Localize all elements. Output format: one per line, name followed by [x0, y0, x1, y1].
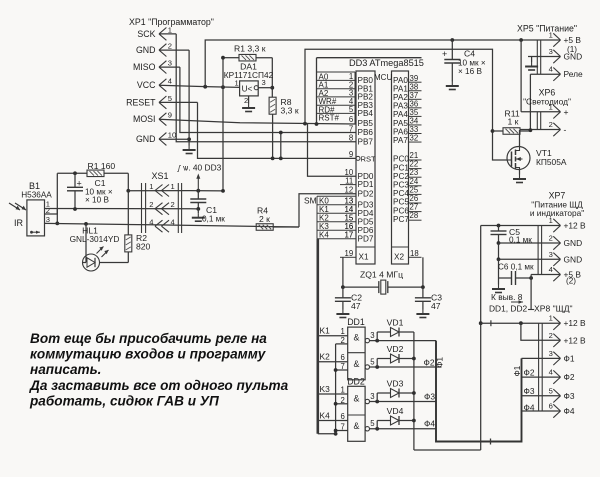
wire up to diode	[376, 421, 378, 429]
wire MOSI to DD3 pin6	[159, 119, 356, 124]
svg-text:1: 1	[149, 182, 153, 191]
wire XP5 pin3 GND	[528, 56, 561, 58]
junction output / diode branch	[375, 400, 379, 404]
pin 19 stub	[340, 256, 356, 258]
key box K0-K4	[317, 196, 356, 239]
wire diode bus to +12 rail	[414, 449, 481, 451]
wire K2 to gate input	[318, 361, 348, 363]
wire diode anode	[377, 392, 390, 394]
svg-text:2: 2	[168, 42, 172, 51]
svg-text:0,1 мк: 0,1 мк	[509, 235, 532, 244]
svg-text:1: 1	[168, 25, 172, 34]
diode VD2	[391, 354, 400, 363]
junction tie line	[334, 368, 338, 372]
wire diode cathode to bus	[399, 358, 414, 360]
junction GND rows	[497, 257, 501, 261]
svg-text:PD1: PD1	[358, 180, 374, 189]
diode VD3	[391, 389, 400, 398]
svg-text:работать, сидюк ГАВ и УП: работать, сидюк ГАВ и УП	[29, 394, 220, 409]
svg-text:5: 5	[168, 94, 172, 103]
wire to C2	[342, 287, 344, 298]
wire XP5 pin4 Реле	[530, 73, 560, 75]
svg-text:VCC: VCC	[137, 80, 156, 90]
connector XS1 pin 2	[155, 203, 169, 215]
junction diode bus	[412, 419, 416, 423]
svg-text:4: 4	[149, 218, 153, 227]
junction MOSI / gate drive	[303, 122, 307, 126]
wire XP8 pin1	[481, 322, 561, 324]
wire diode cathode bus	[413, 332, 415, 450]
svg-text:+12 В: +12 В	[564, 318, 587, 328]
svg-text:1: 1	[549, 31, 553, 40]
svg-text:2: 2	[549, 120, 553, 129]
svg-text:Ф2: Ф2	[424, 357, 435, 367]
svg-text:MOSI: MOSI	[133, 114, 155, 124]
wire B1 pin1 row to XS1 pin2	[45, 208, 191, 210]
svg-text:PD2: PD2	[358, 189, 374, 198]
tick on thick wire	[490, 439, 492, 445]
wire diode cathode to bus	[399, 331, 414, 333]
connector XP7 pin 3	[553, 253, 560, 266]
wire C1 0.1 top lead	[197, 191, 199, 199]
junction output / diode branch	[375, 365, 379, 369]
junction +12 rail / XP8 pin1	[479, 321, 483, 325]
junction DA1 pin3 / R8	[270, 86, 274, 90]
svg-text:SM: SM	[304, 196, 317, 206]
svg-text:+12 В: +12 В	[564, 221, 587, 231]
svg-text:(2): (2)	[566, 277, 576, 286]
connector XP5 bar	[540, 40, 542, 74]
svg-text:&: &	[353, 359, 359, 369]
wire DA1 pin2 to ground	[248, 96, 250, 104]
connector XP5 bar	[536, 40, 538, 74]
wire X1 to crystal	[342, 257, 344, 287]
wire XP7 pin1 +12V	[481, 225, 561, 227]
svg-text:X2: X2	[394, 253, 404, 262]
svg-text:XS1: XS1	[151, 171, 168, 181]
svg-text:1: 1	[549, 314, 553, 323]
MCU DD3 ATmega8515 outline	[317, 58, 422, 124]
svg-text:K4: K4	[319, 231, 329, 240]
junction gate wire / R11	[491, 129, 495, 133]
wire XP8 pin6 Ф4	[522, 410, 561, 412]
connector XP6 pin 1	[553, 105, 560, 118]
svg-text:4: 4	[549, 65, 553, 74]
wire rail to R1-160	[57, 172, 87, 174]
junction rail / pin3 row	[55, 222, 59, 226]
wire C4 top	[451, 40, 453, 60]
svg-text:2: 2	[549, 331, 553, 340]
svg-text:VD2: VD2	[387, 344, 404, 354]
junction C1 / gnd row	[196, 207, 200, 211]
wire gate output row 4	[370, 428, 437, 430]
svg-text:Ф4: Ф4	[524, 403, 535, 413]
junction tie line	[334, 402, 338, 406]
connector XP8 pin 2	[553, 334, 560, 347]
wire R1 to DA1 pin3 and R8	[271, 58, 273, 97]
junction output / diode branch	[375, 339, 379, 343]
junction rail / C1	[73, 171, 77, 175]
svg-text:XP5 "Питание": XP5 "Питание"	[517, 24, 577, 34]
svg-text:VD1: VD1	[387, 318, 404, 328]
connector XS1 left bar	[141, 183, 143, 233]
ground C2	[336, 310, 349, 318]
svg-text:6: 6	[341, 353, 345, 362]
wire crystal left	[343, 286, 379, 288]
svg-text:3: 3	[168, 59, 172, 68]
junction C6 / +5(2)	[529, 276, 533, 280]
wire R4 right	[273, 226, 299, 228]
svg-text:X1: X1	[359, 253, 369, 262]
junction output / diode branch	[375, 427, 379, 431]
junction +5V / R1	[221, 56, 225, 60]
wire K bus bundle down	[316, 239, 319, 434]
connector XP1 pin 10 GND	[159, 133, 166, 146]
connector XP7 pin 2	[553, 236, 560, 249]
svg-text:4: 4	[549, 368, 553, 377]
svg-text:5: 5	[349, 105, 354, 114]
connector XP1 pin 1 SCK	[159, 28, 166, 41]
svg-text:GND: GND	[136, 134, 156, 144]
svg-text:DD1: DD1	[347, 317, 365, 327]
divider X1	[356, 246, 375, 248]
junction diode bus	[412, 391, 416, 395]
wire +5V vertical to XS1 pin1	[222, 58, 224, 191]
connector XP7 bar	[541, 226, 543, 275]
svg-text:3: 3	[549, 349, 553, 358]
MCU DD3 right column	[392, 71, 409, 264]
wire XS1 pin1 row to +5V vertical	[190, 190, 223, 192]
wire R1 right	[256, 57, 272, 59]
pin 18 stub	[409, 256, 422, 258]
svg-text:С6 0,1 мк: С6 0,1 мк	[498, 262, 534, 271]
connector XS1 pin 1	[155, 185, 169, 197]
junction diode bus	[412, 357, 416, 361]
svg-text:К выв. 8: К выв. 8	[491, 292, 523, 302]
resistor R11	[503, 128, 520, 135]
wire R1-160 right	[104, 172, 128, 174]
svg-text:18: 18	[410, 249, 419, 258]
wire Реле down to VT1 drain	[529, 74, 531, 130]
wire SCK from XP1 pin1	[159, 33, 176, 35]
svg-text:коммутацию входов и программу: коммутацию входов и программу	[30, 347, 267, 362]
svg-text:PD7: PD7	[358, 234, 374, 243]
wire LED cathode to R2	[100, 262, 129, 264]
svg-text:GND: GND	[136, 45, 156, 55]
ground C4	[446, 82, 459, 90]
connector XP6 pin 2	[553, 123, 560, 136]
connector XS1 right bar	[181, 183, 183, 233]
supervisor DA1 body	[240, 81, 259, 96]
svg-text:MCU: MCU	[374, 73, 392, 82]
svg-text:820: 820	[136, 242, 151, 252]
junction rail / C4	[450, 38, 454, 42]
connector XP6 bar	[536, 112, 538, 130]
wire VT1 drain	[519, 130, 521, 147]
junction C1 / pin1 row	[73, 207, 77, 211]
LED HL1	[83, 254, 100, 271]
svg-text:XP8 "ЩД": XP8 "ЩД"	[534, 304, 573, 314]
svg-text:-: -	[564, 125, 567, 135]
wire XP6 pin2 to drain	[520, 129, 561, 131]
wire +5 down to R2 top	[127, 191, 129, 235]
wire SCK to DD3 pin8	[176, 34, 356, 142]
wire up to diode	[376, 393, 378, 402]
wire X2 to crystal	[422, 257, 424, 287]
svg-text:H536AA: H536AA	[21, 191, 52, 200]
junction box edge / MOSI row	[315, 122, 319, 126]
svg-text:PB4: PB4	[358, 109, 374, 118]
svg-text:IR: IR	[14, 218, 24, 228]
svg-text:1: 1	[341, 385, 345, 394]
wire gate input pin 7 tie	[336, 369, 348, 371]
wire to pin8 DD1 DD2	[530, 275, 532, 310]
capacitor C1 0.1uF	[190, 199, 206, 203]
capacitor C3 47	[415, 298, 431, 302]
svg-text:3: 3	[549, 47, 553, 56]
svg-text:ZQ1 4 МГц: ZQ1 4 МГц	[360, 270, 403, 280]
wire gate input pin 2 tie	[336, 403, 348, 405]
svg-text:+: +	[442, 49, 447, 59]
svg-text:1: 1	[235, 79, 239, 88]
IR arrows into B1	[9, 203, 20, 210]
wire LED anode	[83, 262, 87, 264]
ground XP5 pin3	[525, 62, 538, 70]
connector XP6 bar	[540, 112, 542, 130]
wire +12V rail down	[480, 226, 482, 451]
junction C5 / GND row	[497, 241, 501, 245]
svg-text:Ф3: Ф3	[524, 386, 535, 396]
svg-text:Ф1: Ф1	[564, 353, 575, 363]
svg-text:&: &	[353, 393, 359, 403]
wire tie line pins 2,7	[335, 344, 337, 434]
wire diode cathode to bus	[399, 392, 414, 394]
svg-text:2: 2	[244, 96, 248, 105]
wire R8 to RST line	[272, 114, 274, 158]
svg-text:КП505А: КП505А	[536, 157, 567, 167]
connector XP7 bar	[537, 226, 539, 275]
wire C6 right	[516, 277, 532, 279]
wire RESET from XP1 pin5	[159, 101, 198, 103]
wire to ground	[197, 209, 199, 213]
svg-text:GND: GND	[564, 238, 583, 248]
svg-text:Ф2: Ф2	[524, 367, 535, 377]
connector XP1 pin 9 MOSI	[159, 113, 166, 126]
wire MOSI branch to DD3 pin10 PD0	[308, 124, 357, 177]
wire +5 row to XS1 pin1	[128, 190, 190, 192]
resistor R2 820	[125, 235, 132, 252]
svg-text:MISO: MISO	[133, 62, 156, 72]
wire DA1 pin3	[258, 87, 272, 89]
svg-text:Ф3: Ф3	[564, 391, 575, 401]
pin 11 stub	[340, 184, 356, 186]
svg-text:6: 6	[549, 402, 553, 411]
wire gnd stub	[531, 57, 533, 63]
connector XP1 pin 4 VCC	[159, 79, 166, 92]
svg-text:9: 9	[349, 150, 353, 159]
connector XP8 pin 3	[553, 352, 560, 365]
svg-text:2: 2	[171, 200, 175, 209]
svg-text:КР1171СП42: КР1171СП42	[224, 70, 274, 80]
svg-text:K1: K1	[320, 326, 331, 336]
svg-text:GND: GND	[564, 254, 583, 264]
connector XP1 pin 2 GND	[159, 44, 166, 57]
svg-text:"Светодиод": "Светодиод"	[523, 97, 571, 107]
wire XP8 pin2	[521, 323, 561, 340]
connector XP5 pin 1	[553, 33, 560, 46]
wire K4 to gate input	[318, 420, 348, 422]
wire R4 to DD3 pin12	[299, 194, 356, 227]
junction VCC / +5V riser	[203, 85, 207, 89]
svg-text:× 10 В: × 10 В	[85, 196, 109, 205]
wire gate output row 1	[370, 340, 437, 342]
wire diode anode	[377, 420, 390, 422]
svg-text:(1): (1)	[567, 45, 577, 54]
wire XP7 pin2 GND	[499, 242, 561, 244]
svg-text:5: 5	[370, 357, 375, 366]
svg-text:DD1, DD2: DD1, DD2	[489, 304, 528, 314]
svg-text:&: &	[353, 421, 359, 431]
connector XP7 pin 1	[553, 219, 560, 232]
junction R8 / RST	[271, 157, 275, 161]
svg-text:3: 3	[370, 392, 374, 401]
wire K1 to gate input	[318, 335, 348, 337]
svg-text:5: 5	[549, 386, 553, 395]
svg-text:12: 12	[345, 186, 354, 195]
svg-text:3: 3	[549, 250, 553, 259]
svg-text:6: 6	[349, 115, 353, 124]
svg-text:SCK: SCK	[137, 29, 155, 39]
wire GND vertical	[188, 50, 190, 145]
wire XP7 pin4 +5V(2)	[531, 274, 560, 276]
svg-text:Да заставить все от одного пул: Да заставить все от одного пульта	[29, 378, 289, 393]
connector XP5 pin 4	[553, 68, 560, 81]
tick on pin1 wire	[490, 320, 492, 326]
ground XP1	[183, 146, 196, 154]
ground C5 C6	[492, 285, 505, 293]
wire GND from XP1 pin2	[159, 49, 189, 51]
junction crystal / C2	[341, 285, 345, 289]
wire K3 to gate input	[318, 393, 348, 395]
svg-text:6: 6	[341, 412, 345, 421]
svg-text:PC7: PC7	[393, 215, 409, 224]
junction pin3 row / LED branch	[84, 222, 88, 226]
wire C1 0.1 bottom lead	[197, 203, 199, 209]
svg-text:2: 2	[549, 234, 553, 243]
wire K0 to tie line	[318, 433, 336, 435]
svg-text:10: 10	[168, 131, 176, 140]
wire MISO from XP1 pin3	[159, 66, 180, 68]
ground C3	[416, 310, 429, 318]
connector XS1 pin 4	[155, 220, 169, 232]
wire R1 left	[223, 57, 239, 59]
wire +V rail down to B1 pin3 row	[56, 173, 58, 223]
wire VCC from XP1 pin4 to DA1 pin1	[159, 85, 240, 87]
junction rail / XP6 riser	[519, 38, 523, 42]
junction crystal / C3	[421, 285, 425, 289]
wire C6 left	[499, 277, 512, 279]
svg-text:RST: RST	[361, 155, 377, 164]
junction +5 vertical end	[221, 189, 225, 193]
svg-text:9: 9	[168, 111, 172, 120]
transistor VT1 MOSFET	[507, 147, 530, 170]
wire XP7 pin3 GND	[499, 258, 561, 260]
connector XP8 pin 6	[553, 404, 560, 417]
diode VD4	[391, 416, 400, 425]
wire R11 right	[520, 130, 530, 132]
svg-text:PB5: PB5	[358, 119, 374, 128]
svg-text:C4: C4	[464, 49, 475, 59]
svg-text:U<: U<	[242, 85, 253, 94]
capacitor C1 10uF	[67, 187, 83, 191]
svg-text:3: 3	[262, 78, 266, 87]
connector XP5 pin 3	[553, 50, 560, 63]
wire MISO row to RST row link	[280, 133, 282, 159]
resistor R1 160	[87, 170, 104, 177]
junction pin1 / pin2	[519, 321, 523, 325]
svg-text:RESET: RESET	[126, 97, 156, 107]
svg-text:K2: K2	[320, 352, 331, 362]
svg-text:0,1 мк: 0,1 мк	[202, 215, 225, 224]
svg-text:32: 32	[410, 134, 419, 143]
tick wire end	[528, 309, 534, 311]
connector XP1 pin 3 MISO	[159, 61, 166, 74]
resistor R4 2k	[256, 224, 273, 231]
junction on MISO row	[279, 131, 283, 135]
wire up to diode	[376, 332, 378, 341]
wire diode cathode to bus	[399, 420, 414, 422]
ground VT1 source	[513, 175, 526, 183]
svg-text:1: 1	[549, 102, 553, 111]
svg-text:PA7: PA7	[393, 136, 408, 145]
wire VT1 source	[519, 170, 521, 175]
wire gate output row 3	[370, 401, 437, 403]
wire XS1 pin2 row to C1	[190, 208, 198, 210]
svg-text:1: 1	[171, 182, 175, 191]
svg-text:4: 4	[549, 265, 553, 274]
wire gate input pin 7 tie	[336, 430, 348, 432]
junction tie bottom	[334, 432, 338, 436]
capacitor C2 47	[335, 298, 351, 302]
wire XP8 pin4 Ф2	[522, 376, 561, 378]
connector XP8 pin 1	[553, 317, 560, 330]
capacitor C4 10uF	[444, 60, 460, 64]
svg-text:1: 1	[341, 327, 345, 336]
svg-text:7: 7	[349, 124, 353, 133]
junction GND / pin10	[187, 137, 191, 141]
svg-text:+12 В: +12 В	[564, 335, 587, 345]
svg-text:5: 5	[370, 419, 375, 428]
svg-text:Ф1: Ф1	[513, 365, 522, 376]
wire B1 pin3 row	[45, 223, 151, 224]
svg-text:K3: K3	[320, 384, 331, 394]
wire +5V rail to XP5	[205, 40, 560, 87]
wire XP6 pin1	[521, 111, 560, 113]
gate DD1 body	[348, 327, 365, 380]
svg-text:VD4: VD4	[387, 406, 404, 416]
svg-text:11: 11	[345, 176, 353, 185]
svg-text:ѡ. 40 DD3: ѡ. 40 DD3	[183, 163, 222, 173]
svg-text:4: 4	[168, 77, 172, 86]
connector XP1 pin 5 RESET	[159, 96, 166, 109]
wire down to HL1	[85, 224, 87, 263]
connector XP7 pin 4	[553, 268, 560, 281]
B1 internal arrow	[31, 231, 40, 233]
wire gate output row 2	[370, 366, 437, 368]
capacitor C5 0.1uF	[491, 231, 507, 235]
capacitor C6 0.1uF	[512, 271, 516, 285]
ground DA1	[242, 104, 255, 112]
